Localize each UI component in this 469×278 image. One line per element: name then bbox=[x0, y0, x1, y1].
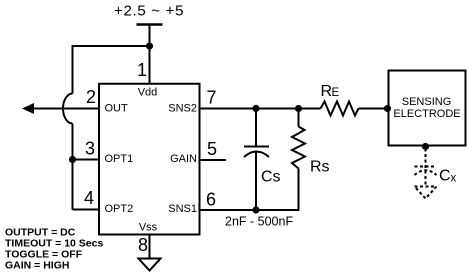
svg-text:5: 5 bbox=[207, 139, 217, 159]
wire left vertical upper segment bbox=[72, 45, 74, 94]
capacitor Cx dashed top lead bbox=[425, 149, 427, 187]
node electrode junction dot bbox=[384, 105, 391, 112]
svg-text:GAIN = HIGH: GAIN = HIGH bbox=[5, 260, 69, 272]
svg-text:OUT: OUT bbox=[105, 103, 129, 115]
wire to pin 3 OPT1 bbox=[73, 159, 100, 161]
svg-text:+2.5 ~ +5: +2.5 ~ +5 bbox=[114, 3, 184, 20]
resistor Rs bottom lead bbox=[298, 169, 300, 212]
wire pin 8 Vss to ground bbox=[149, 234, 151, 258]
node Vdd junction dot bbox=[146, 42, 153, 49]
node Cs junction dot bottom bbox=[252, 206, 259, 213]
svg-text:8: 8 bbox=[138, 235, 148, 255]
svg-text:OPT2: OPT2 bbox=[105, 203, 134, 215]
power rail bar bbox=[137, 23, 163, 26]
wire pin 7 SNS2 to resistor RE bbox=[199, 108, 321, 110]
svg-text:2: 2 bbox=[86, 87, 96, 107]
wire from Vdd junction to left bbox=[73, 45, 150, 47]
svg-text:E: E bbox=[332, 87, 340, 99]
svg-text:4: 4 bbox=[84, 188, 94, 208]
svg-text:Rs: Rs bbox=[310, 159, 330, 176]
op-amp U1 IC body bbox=[99, 84, 200, 235]
wire left vertical lower segment to pin 4 bbox=[72, 124, 74, 210]
resistor Rs top lead bbox=[298, 109, 300, 127]
wire hop arc over OUT wire bbox=[63, 94, 73, 124]
svg-text:1: 1 bbox=[137, 60, 147, 80]
ground symbol bbox=[139, 259, 161, 271]
wire Vdd vertical from rail to pin 1 bbox=[149, 26, 151, 84]
wire pin 5 GAIN stub bbox=[199, 159, 226, 161]
node Cs junction dot top bbox=[252, 105, 259, 112]
svg-text:Vss: Vss bbox=[139, 222, 158, 234]
capacitor Cs top lead bbox=[255, 109, 257, 147]
capacitor Cx dashed top plate bbox=[415, 166, 437, 168]
node OPT junction dot bbox=[69, 156, 76, 163]
svg-text:Vdd: Vdd bbox=[138, 87, 158, 99]
svg-text:SNS1: SNS1 bbox=[168, 203, 197, 215]
wire RE to sensing electrode bbox=[359, 108, 390, 110]
svg-text:7: 7 bbox=[207, 88, 217, 108]
svg-text:ELECTRODE: ELECTRODE bbox=[393, 108, 460, 120]
dashed earth arrow triangle bbox=[415, 187, 437, 199]
capacitor Cs bottom curved plate bbox=[244, 152, 269, 158]
wire pin 6 SNS1 bottom net bbox=[199, 209, 300, 211]
svg-text:Cs: Cs bbox=[261, 169, 281, 186]
capacitor Cx dashed curved plate bbox=[415, 170, 437, 175]
node Rs junction dot top bbox=[295, 105, 302, 112]
svg-text:C: C bbox=[439, 168, 451, 185]
sensing electrode box bbox=[389, 71, 466, 146]
wire to pin 4 OPT2 bbox=[73, 209, 100, 211]
resistor Rs zigzag bbox=[292, 127, 305, 169]
svg-text:OPT1: OPT1 bbox=[105, 153, 134, 165]
svg-text:x: x bbox=[451, 173, 457, 185]
svg-text:2nF - 500nF: 2nF - 500nF bbox=[225, 215, 293, 229]
capacitor Cs bottom lead bbox=[255, 153, 257, 211]
svg-text:3: 3 bbox=[85, 139, 95, 159]
wire OUT output bbox=[33, 108, 99, 110]
node electrode bottom junction dot bbox=[422, 143, 429, 150]
svg-text:OUTPUT = DC: OUTPUT = DC bbox=[5, 226, 76, 238]
svg-text:R: R bbox=[321, 83, 333, 100]
svg-text:GAIN: GAIN bbox=[170, 153, 197, 165]
arrowhead on OUT wire bbox=[22, 103, 34, 114]
svg-text:6: 6 bbox=[206, 190, 216, 210]
resistor RE zigzag bbox=[321, 102, 359, 116]
capacitor Cs top plate bbox=[244, 146, 269, 148]
svg-text:SENSING: SENSING bbox=[402, 96, 452, 108]
svg-text:SNS2: SNS2 bbox=[168, 103, 197, 115]
